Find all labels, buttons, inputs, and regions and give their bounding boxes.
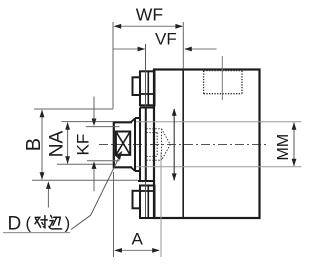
flange plate (138, 108, 155, 182)
port centerline (221, 56, 223, 100)
MM bottom extension line (136, 166, 302, 168)
collar chamfer bottom (131, 167, 135, 171)
piston rod end (113, 121, 132, 168)
NA top extension line (62, 121, 114, 123)
svg-text:KF: KF (74, 134, 93, 156)
internal flange height dimension (173, 109, 175, 180)
top boss inner line (147, 72, 149, 105)
A left extension line (113, 172, 115, 257)
WF arrowheads (114, 24, 122, 29)
D leader arrowhead (115, 151, 122, 160)
bottom boss seat line (140, 190, 155, 192)
KF bottom outside arrow (93, 169, 95, 191)
D vertical arrow to B line (47, 189, 49, 208)
top screw head (133, 77, 141, 95)
svg-text:(: ( (26, 214, 32, 232)
NA arrowheads (65, 122, 70, 130)
svg-text:): ) (65, 214, 71, 232)
KF top outside arrow (93, 97, 95, 119)
collar chamfer top (131, 118, 135, 122)
VF dimension line right part (185, 48, 217, 50)
cylinder body outline (154, 70, 260, 219)
body front joint line (182, 70, 184, 219)
WF dimension line (115, 25, 183, 27)
hanzi 对 (35, 216, 47, 228)
hanzi 边 (49, 215, 62, 229)
top mounting boss (140, 71, 155, 105)
thread cross diagonals (116, 132, 130, 155)
KF bottom extension line (87, 160, 120, 162)
svg-text:MM: MM (275, 134, 292, 161)
KF top extension line (86, 126, 120, 128)
top boss seat line (140, 93, 155, 95)
bottom screw head (133, 191, 141, 209)
VF dimension line left part (114, 48, 145, 50)
screw axis line bottom (145, 181, 147, 217)
D leader line (71, 154, 121, 229)
D label underline (3, 232, 70, 234)
hidden hole cone (162, 129, 171, 161)
bottom mounting boss (140, 186, 155, 219)
NA dimension line (67, 123, 69, 164)
svg-text:B: B (23, 138, 45, 151)
B bottom extension line (32, 179, 138, 181)
VF left arrowhead (outside, pointing right) (138, 47, 146, 52)
VF right arrowhead (outside, pointing left) (184, 47, 192, 52)
MM dimension line (293, 123, 295, 167)
B top extension line (34, 108, 113, 110)
B dimension line (41, 110, 43, 179)
rod thread box (female thread with cross) (116, 132, 130, 155)
A arrowheads (114, 248, 122, 253)
MM arrowheads (292, 122, 297, 130)
hidden core lines (146, 133, 157, 157)
port dashed (204, 71, 242, 94)
svg-text:NA: NA (47, 131, 68, 158)
WF right extension line (182, 22, 184, 69)
svg-text:A: A (132, 230, 144, 249)
svg-text:WF: WF (136, 5, 164, 25)
svg-text:VF: VF (155, 29, 177, 48)
WF left extension line (112, 22, 114, 109)
hidden thread hole dotted (146, 129, 161, 161)
centerline (99, 144, 269, 146)
B arrowheads (40, 110, 45, 118)
MM top extension line (136, 121, 302, 123)
bottom boss inner line (147, 187, 149, 218)
svg-text:D: D (8, 214, 22, 235)
rod collar (135, 118, 140, 171)
NA bottom extension line (57, 163, 113, 165)
A dimension line (115, 249, 159, 251)
screw axis line top (145, 44, 147, 107)
A right extension line (gray) (160, 152, 162, 257)
